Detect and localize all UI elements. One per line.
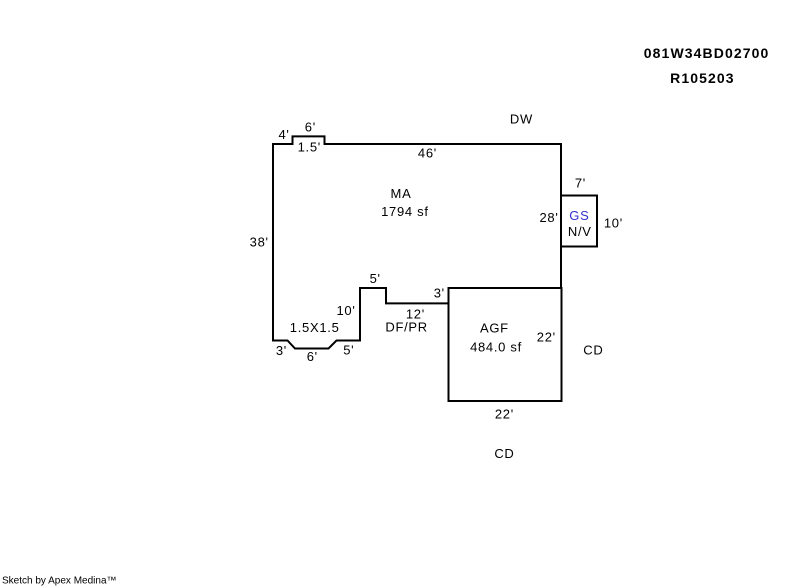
svg-text:46': 46' — [418, 146, 437, 161]
svg-text:28': 28' — [539, 210, 558, 225]
svg-text:22': 22' — [495, 407, 514, 422]
main area MA outline — [273, 136, 561, 348]
svg-text:6': 6' — [307, 349, 318, 364]
svg-text:22': 22' — [537, 330, 556, 345]
svg-text:10': 10' — [336, 303, 355, 318]
svg-text:AGF: AGF — [480, 321, 509, 336]
svg-text:1.5X1.5: 1.5X1.5 — [290, 320, 340, 335]
svg-text:38': 38' — [250, 235, 269, 250]
svg-text:R105203: R105203 — [670, 70, 735, 86]
svg-text:3': 3' — [434, 286, 445, 301]
svg-text:484.0 sf: 484.0 sf — [470, 340, 522, 355]
svg-text:6': 6' — [305, 120, 316, 135]
svg-text:GS: GS — [569, 208, 589, 223]
svg-text:Sketch by Apex Medina™: Sketch by Apex Medina™ — [2, 576, 117, 587]
svg-text:DW: DW — [510, 112, 533, 127]
svg-text:MA: MA — [391, 186, 412, 201]
svg-text:10': 10' — [604, 216, 623, 231]
svg-text:CD: CD — [494, 446, 514, 461]
svg-text:4': 4' — [278, 127, 289, 142]
svg-text:CD: CD — [583, 343, 603, 358]
svg-text:1.5': 1.5' — [298, 140, 321, 155]
svg-text:5': 5' — [343, 343, 354, 358]
svg-text:7': 7' — [575, 176, 586, 191]
svg-text:5': 5' — [370, 271, 381, 286]
svg-text:N/V: N/V — [568, 224, 592, 239]
attached garage AGF box — [449, 288, 562, 401]
garage storage GS box — [561, 196, 597, 247]
svg-text:081W34BD02700: 081W34BD02700 — [644, 45, 770, 61]
svg-text:3': 3' — [276, 343, 287, 358]
svg-text:1794 sf: 1794 sf — [381, 204, 429, 219]
svg-text:DF/PR: DF/PR — [385, 320, 428, 335]
